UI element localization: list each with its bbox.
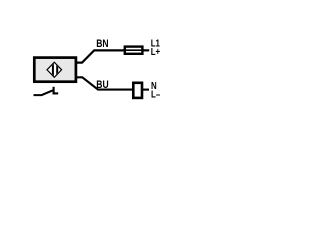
wire BU <box>77 77 133 89</box>
terminal label N <box>151 80 157 91</box>
svg-text:BN: BN <box>96 38 108 50</box>
svg-text:BU: BU <box>96 79 108 91</box>
svg-text:L+: L+ <box>151 46 160 57</box>
svg-text:L–: L– <box>151 88 160 99</box>
proximity sensor body <box>34 58 76 82</box>
terminal label L+ <box>151 46 160 57</box>
terminal label L- <box>151 88 160 99</box>
load <box>133 83 142 98</box>
wire BN <box>77 50 125 62</box>
terminal label L1 <box>151 38 160 49</box>
actuator target symbol <box>34 87 59 95</box>
label BU <box>96 79 108 91</box>
wire fuse to L1 <box>144 49 150 51</box>
sensor symbol diamond <box>47 62 62 78</box>
fuse F1 <box>125 47 144 54</box>
label BN <box>96 38 108 50</box>
wire load to N <box>143 89 149 91</box>
